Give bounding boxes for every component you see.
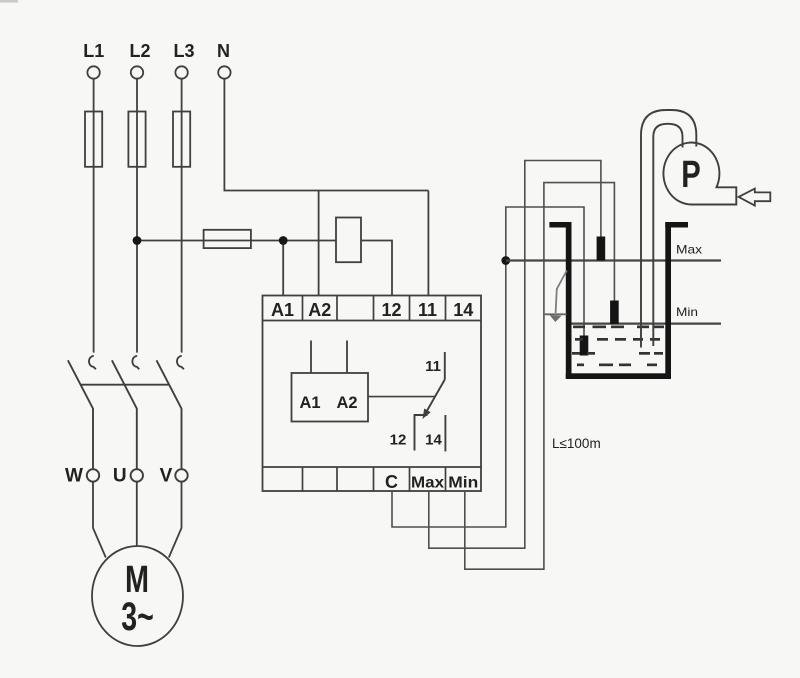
svg-text:A1: A1	[271, 300, 294, 320]
suction pipe outer line	[641, 110, 696, 348]
svg-text:12: 12	[390, 432, 407, 449]
svg-text:V: V	[160, 466, 173, 487]
svg-text:U: U	[113, 466, 127, 487]
wire A1	[282, 241, 284, 296]
contact 12 seat	[415, 415, 428, 451]
level-drop arrowhead	[550, 315, 562, 322]
contact 14 lead	[444, 415, 446, 451]
svg-text:11: 11	[418, 300, 437, 320]
contact blade	[424, 380, 445, 417]
relay terminal dividers bottom row	[303, 467, 446, 491]
wire L2 vertical	[136, 79, 138, 353]
wire A2 from N line	[318, 191, 320, 296]
svg-text:Min: Min	[676, 305, 698, 319]
svg-text:Max: Max	[411, 475, 444, 492]
wire N down and across	[224, 79, 428, 191]
svg-text:A1: A1	[299, 394, 320, 412]
wire 11 from N line	[427, 191, 429, 296]
electrode Max tip	[597, 237, 606, 261]
svg-text:14: 14	[453, 300, 473, 320]
svg-text:N: N	[217, 41, 230, 61]
contact blade arrowhead	[423, 409, 430, 417]
junction dot L2	[133, 236, 142, 245]
relay coil stub A2	[346, 341, 348, 374]
tank right flange	[665, 222, 688, 228]
motor lead V	[169, 482, 182, 558]
wire L3 vertical	[181, 79, 183, 353]
contactor K1 hook pole1	[89, 356, 96, 369]
wire Min to tank	[465, 183, 615, 570]
mechanical link coil to contact	[368, 396, 435, 398]
contactor K1 blade pole1	[68, 360, 93, 469]
wire coil to 12	[361, 241, 392, 296]
tank left wall	[566, 222, 572, 379]
level-drop arrow shaft	[556, 271, 567, 314]
svg-text:Max: Max	[676, 243, 702, 257]
svg-text:14: 14	[425, 432, 442, 449]
svg-text:L2: L2	[129, 41, 150, 61]
terminal N	[218, 66, 230, 78]
terminal L2	[131, 66, 143, 78]
contactor K1 hook pole2	[132, 356, 139, 369]
terminal V	[175, 469, 187, 481]
terminal L3	[175, 66, 187, 78]
junction dot A1	[279, 236, 288, 245]
tank left flange	[549, 222, 571, 228]
suction pipe inner line	[653, 124, 682, 346]
svg-text:3~: 3~	[121, 595, 154, 639]
wire Max to tank	[429, 161, 601, 549]
corner artifact	[0, 0, 18, 3]
contactor coil K1	[336, 218, 361, 263]
pump outlet arrow	[739, 189, 771, 206]
electrode Min tip	[610, 301, 619, 325]
junction dot C wire at Max line	[501, 256, 510, 265]
svg-text:L1: L1	[83, 41, 104, 61]
svg-text:L3: L3	[173, 41, 194, 61]
wire control from L2	[137, 240, 336, 242]
wire C to tank	[392, 207, 584, 527]
relay coil stub A1	[310, 341, 312, 374]
terminal U	[131, 469, 143, 481]
tank right wall	[665, 222, 671, 379]
svg-text:C: C	[385, 472, 398, 492]
svg-text:Min: Min	[448, 475, 478, 492]
motor M1 circle	[92, 546, 183, 646]
svg-text:W: W	[65, 466, 83, 487]
contact 11 lead	[444, 352, 446, 380]
svg-text:12: 12	[381, 300, 401, 320]
terminal L1	[87, 66, 99, 78]
contactor linkage bar	[81, 384, 169, 386]
contactor K1 hook pole3	[177, 356, 184, 369]
motor lead W	[93, 482, 106, 558]
level relay U1 outline	[263, 296, 482, 492]
terminal W	[87, 469, 99, 481]
svg-text:P: P	[681, 154, 701, 196]
svg-text:L≤100m: L≤100m	[552, 436, 601, 451]
relay terminal dividers top row	[303, 296, 446, 321]
tank bottom	[566, 373, 671, 379]
svg-text:A2: A2	[308, 300, 331, 320]
wire L1 vertical	[93, 79, 95, 353]
svg-text:A2: A2	[336, 394, 357, 412]
relay coil symbol box	[292, 373, 369, 422]
fuse F1	[85, 112, 102, 167]
svg-text:11: 11	[425, 358, 441, 375]
fuse F3	[173, 112, 190, 167]
pump P body	[663, 143, 736, 205]
level tick	[544, 313, 567, 315]
electrode C tip	[580, 336, 589, 356]
contactor K1 blade pole2	[112, 360, 137, 469]
contactor K1 blade pole3	[157, 360, 182, 469]
water dashes	[572, 326, 664, 367]
Max level line	[506, 259, 721, 261]
motor lead U	[136, 482, 138, 547]
Min level line	[572, 323, 722, 325]
fuse F4	[204, 230, 251, 248]
fuse F2	[128, 112, 145, 167]
